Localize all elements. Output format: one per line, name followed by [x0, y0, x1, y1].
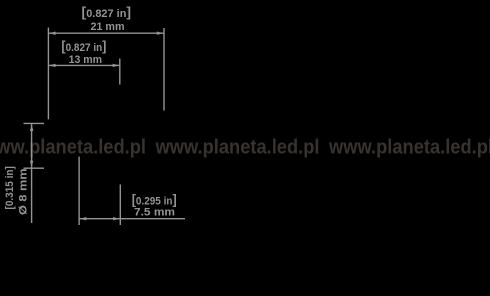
extension tick dia 8 bottom — [24, 167, 45, 169]
arrowhead 21 mm left — [49, 32, 56, 35]
extension line 7.5 mm right (x=120.3) — [119, 185, 121, 226]
arrowhead dia 8 up — [30, 124, 33, 131]
svg-text:13 mm: 13 mm — [69, 54, 103, 66]
arrowhead 13 mm right — [113, 64, 120, 67]
extension tick 13 mm right (x=119.8) — [119, 59, 121, 85]
svg-text:7.5 mm: 7.5 mm — [134, 206, 175, 218]
dimension line 21 mm — [49, 32, 164, 34]
dimension line dia 8 mm vertical with extension — [31, 124, 33, 223]
arrowhead 13 mm left — [49, 64, 56, 67]
extension line right (x=164) — [163, 28, 165, 111]
svg-text:www.planeta.led.pl: www.planeta.led.pl — [0, 137, 146, 159]
arrowhead 7.5 mm left — [79, 217, 86, 220]
arrowhead 7.5 mm right — [113, 217, 120, 220]
svg-text:[0.315 in]: [0.315 in] — [4, 166, 16, 210]
svg-text:21 mm: 21 mm — [91, 21, 125, 33]
extension tick dia 8 top — [24, 122, 45, 124]
extension line left (x=48.4) — [47, 28, 49, 120]
svg-text:Ø 8 mm: Ø 8 mm — [17, 168, 29, 215]
svg-text:www.planeta.led.pl: www.planeta.led.pl — [328, 137, 490, 159]
svg-text:www.planeta.led.pl: www.planeta.led.pl — [155, 137, 320, 159]
arrowhead 21 mm right — [157, 32, 164, 35]
extension line 7.5 mm left (x=79.1) — [78, 157, 80, 225]
arrowhead dia 8 down — [30, 161, 33, 168]
dimension line 13 mm — [49, 64, 119, 66]
dimension and leader line 7.5 mm — [79, 218, 185, 220]
